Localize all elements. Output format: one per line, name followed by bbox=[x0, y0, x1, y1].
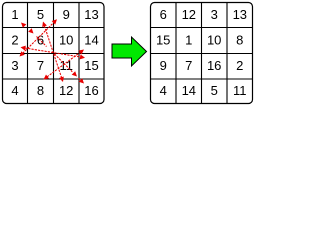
svg-text:7: 7 bbox=[37, 58, 44, 73]
svg-text:2: 2 bbox=[236, 58, 243, 73]
svg-text:8: 8 bbox=[37, 83, 44, 98]
svg-text:7: 7 bbox=[185, 58, 192, 73]
svg-text:15: 15 bbox=[84, 58, 98, 73]
svg-text:1: 1 bbox=[11, 7, 18, 22]
svg-text:8: 8 bbox=[236, 33, 243, 48]
svg-text:16: 16 bbox=[84, 83, 98, 98]
svg-text:5: 5 bbox=[211, 83, 218, 98]
svg-text:9: 9 bbox=[63, 7, 70, 22]
svg-text:11: 11 bbox=[233, 83, 247, 98]
svg-text:5: 5 bbox=[37, 7, 44, 22]
svg-text:10: 10 bbox=[59, 33, 73, 48]
svg-text:14: 14 bbox=[84, 33, 98, 48]
svg-text:1: 1 bbox=[185, 33, 192, 48]
svg-text:2: 2 bbox=[11, 33, 18, 48]
svg-text:6: 6 bbox=[160, 7, 167, 22]
svg-text:12: 12 bbox=[59, 83, 73, 98]
svg-text:13: 13 bbox=[84, 7, 98, 22]
svg-text:4: 4 bbox=[11, 83, 18, 98]
svg-text:13: 13 bbox=[233, 7, 247, 22]
svg-text:3: 3 bbox=[211, 7, 218, 22]
svg-text:10: 10 bbox=[207, 33, 221, 48]
svg-text:16: 16 bbox=[207, 58, 221, 73]
svg-text:3: 3 bbox=[11, 58, 18, 73]
svg-text:12: 12 bbox=[182, 7, 196, 22]
svg-text:14: 14 bbox=[182, 83, 196, 98]
svg-text:4: 4 bbox=[160, 83, 167, 98]
svg-text:15: 15 bbox=[156, 33, 170, 48]
svg-text:9: 9 bbox=[160, 58, 167, 73]
